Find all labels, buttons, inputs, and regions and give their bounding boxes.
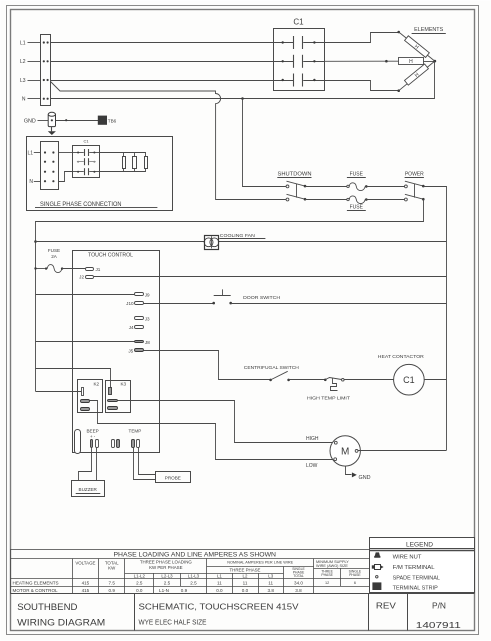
svg-text:11: 11 xyxy=(243,580,248,585)
svg-text:SHUTDOWN: SHUTDOWN xyxy=(278,172,312,178)
wire BEEP- to buzzer xyxy=(96,448,98,481)
resistor R1 (single phase) xyxy=(123,153,126,172)
svg-text:HEAT CONTACTOR: HEAT CONTACTOR xyxy=(378,354,425,359)
buzzer xyxy=(72,481,105,497)
switch SHUTDOWN tie bar xyxy=(296,184,298,198)
wire J2 to right bus xyxy=(94,276,446,278)
connector J3 xyxy=(135,317,150,322)
node L3 label xyxy=(20,78,40,84)
svg-text:PROBE: PROBE xyxy=(165,476,181,481)
svg-text:J9: J9 xyxy=(145,293,150,298)
wire K2 contact to motor LOW xyxy=(90,401,334,460)
wire J10 to door switch xyxy=(143,303,213,305)
legend wire nut symbol xyxy=(374,552,380,557)
wire L3 to contactor xyxy=(51,80,274,82)
connector J4 xyxy=(129,325,144,330)
wire K3 contact to motor HIGH xyxy=(118,401,335,443)
TEMP pin a xyxy=(132,440,135,448)
svg-text:L2: L2 xyxy=(243,573,248,578)
wire nut (GND) xyxy=(48,112,56,135)
svg-text:TB6: TB6 xyxy=(108,118,117,123)
COOLING FAN label xyxy=(219,233,265,238)
svg-text:HIGH: HIGH xyxy=(306,436,319,442)
BEEP label xyxy=(86,429,98,439)
svg-text:C1: C1 xyxy=(83,139,89,144)
GND label xyxy=(24,118,48,124)
svg-text:WIRE NUT: WIRE NUT xyxy=(393,554,422,560)
node element mid xyxy=(385,60,388,63)
svg-text:BEEP: BEEP xyxy=(86,429,98,434)
wire TEMP a to probe xyxy=(134,448,156,480)
contactor C1 (single phase) xyxy=(73,139,100,178)
ELEMENTS label xyxy=(412,27,446,34)
svg-text:415: 415 xyxy=(82,588,90,593)
svg-text:N: N xyxy=(22,97,26,103)
contact C1 pole2 xyxy=(274,55,325,68)
svg-text:0.9: 0.9 xyxy=(109,588,116,593)
svg-text:FUSE: FUSE xyxy=(350,204,364,210)
svg-text:F/M TERMINAL: F/M TERMINAL xyxy=(393,565,436,571)
connector J10 xyxy=(126,301,143,306)
svg-text:GND: GND xyxy=(24,118,36,124)
switch POWER pole2 xyxy=(405,194,425,201)
svg-text:WIRE (AWG) SIZE: WIRE (AWG) SIZE xyxy=(316,564,348,568)
wire motor to right bus xyxy=(358,450,446,452)
svg-text:12: 12 xyxy=(325,581,329,585)
fuse (top) xyxy=(347,183,406,191)
svg-text:BUZZER: BUZZER xyxy=(79,487,98,492)
contact C1 pole1 xyxy=(274,36,325,49)
svg-text:THREE PHASE LOADING: THREE PHASE LOADING xyxy=(140,560,193,565)
switch POWER label xyxy=(405,172,425,178)
svg-text:POWER: POWER xyxy=(405,172,424,178)
node L2 label xyxy=(20,59,40,65)
wire L2 to middle element xyxy=(325,60,399,62)
heating element H (bottom) xyxy=(399,61,435,91)
wire L2 to contactor xyxy=(51,61,274,63)
svg-text:J2: J2 xyxy=(79,275,84,280)
heating element H (middle) xyxy=(399,58,435,66)
svg-text:+ -: + - xyxy=(90,434,96,439)
svg-text:K2: K2 xyxy=(93,381,99,386)
svg-text:2A: 2A xyxy=(51,254,58,259)
single phase connection box xyxy=(27,137,173,211)
svg-text:WYE ELEC HALF SIZE: WYE ELEC HALF SIZE xyxy=(139,618,207,627)
svg-text:0.9: 0.9 xyxy=(181,588,188,593)
terminal strip TB6 xyxy=(98,116,117,125)
svg-text:L1: L1 xyxy=(20,40,26,46)
svg-text:6: 6 xyxy=(354,581,356,585)
wire top rail to resistors xyxy=(100,153,146,157)
switch SHUTDOWN label xyxy=(277,172,312,178)
svg-text:HIGH TEMP LIMIT: HIGH TEMP LIMIT xyxy=(307,395,350,400)
node L1 label xyxy=(20,40,40,46)
svg-text:NOMINAL AMPERES PER LINE WIRE: NOMINAL AMPERES PER LINE WIRE xyxy=(227,560,293,564)
svg-text:34.0: 34.0 xyxy=(294,580,303,585)
svg-text:J8: J8 xyxy=(145,340,150,345)
switch CENTRIFUGAL xyxy=(244,365,325,381)
wire GND to TB6 xyxy=(56,120,99,122)
svg-text:KW PER PHASE: KW PER PHASE xyxy=(149,565,182,570)
middle pin a xyxy=(112,440,115,448)
svg-text:GND: GND xyxy=(359,475,371,481)
connector slot (left) xyxy=(75,430,81,454)
wire L1 row to small contactor xyxy=(58,152,73,154)
svg-text:HEATING ELEMENTS: HEATING ELEMENTS xyxy=(13,580,59,585)
svg-text:DOOR SWITCH: DOOR SWITCH xyxy=(243,295,280,300)
connector J9 xyxy=(135,293,150,298)
legend box xyxy=(369,538,474,593)
wire POWER pole1 to right bus xyxy=(424,187,447,451)
svg-text:P/N: P/N xyxy=(432,601,446,611)
node wye apex xyxy=(433,60,436,63)
svg-text:SPADE TERMINAL: SPADE TERMINAL xyxy=(393,575,441,581)
svg-text:0.0: 0.0 xyxy=(216,588,223,593)
fuse FUSE 2A label xyxy=(48,248,60,259)
wire fan line xyxy=(36,241,447,243)
switch POWER pole1 xyxy=(405,181,425,188)
svg-text:K3: K3 xyxy=(120,381,126,386)
svg-text:C1: C1 xyxy=(293,18,304,27)
svg-text:3.8: 3.8 xyxy=(295,588,302,593)
relay K3 xyxy=(106,381,131,413)
svg-text:COOLING FAN: COOLING FAN xyxy=(220,233,255,238)
svg-text:LOW: LOW xyxy=(306,463,318,469)
contactor C1 (main) xyxy=(274,18,325,91)
svg-text:M: M xyxy=(341,447,349,458)
svg-text:2.5: 2.5 xyxy=(164,580,171,585)
wire J9 to left bus xyxy=(36,294,135,296)
svg-text:7.5: 7.5 xyxy=(109,580,116,585)
resistor R2 (single phase) xyxy=(133,153,137,172)
svg-text:J4: J4 xyxy=(129,325,134,330)
BEEP pin + xyxy=(91,440,93,448)
svg-text:N: N xyxy=(29,179,33,185)
connector J2 xyxy=(79,275,93,280)
wire bus to K2 coil xyxy=(36,391,82,393)
wire apex to N xyxy=(434,61,436,99)
terminal block (single phase) xyxy=(41,142,59,190)
touch control box xyxy=(73,251,160,453)
ground (motor) xyxy=(346,467,371,482)
svg-text:REV: REV xyxy=(376,601,396,611)
svg-text:SINGLE PHASE CONNECTION: SINGLE PHASE CONNECTION xyxy=(40,201,122,208)
connector J5 xyxy=(128,349,143,354)
resistor R3 (single phase) xyxy=(145,157,148,169)
relay K2 xyxy=(78,380,103,413)
svg-text:0.0: 0.0 xyxy=(242,588,249,593)
svg-text:TEMP: TEMP xyxy=(129,429,142,434)
door switch xyxy=(212,289,280,304)
svg-text:J3: J3 xyxy=(145,317,150,322)
node N label xyxy=(22,97,40,103)
legend terminal strip symbol xyxy=(372,582,381,590)
cooling fan icon xyxy=(204,236,219,250)
svg-text:PHASE: PHASE xyxy=(321,573,333,577)
svg-text:PHASE LOADING AND LINE AMPERES: PHASE LOADING AND LINE AMPERES AS SHOWN xyxy=(114,552,277,559)
svg-text:ELEMENTS: ELEMENTS xyxy=(414,27,444,33)
svg-text:TOUCH CONTROL: TOUCH CONTROL xyxy=(88,252,133,258)
svg-text:J10: J10 xyxy=(126,301,134,306)
svg-text:L3: L3 xyxy=(20,78,26,84)
wire J8 to left bus xyxy=(36,341,135,343)
svg-text:MOTOR & CONTROL: MOTOR & CONTROL xyxy=(13,588,59,593)
svg-text:FUSE: FUSE xyxy=(350,172,364,178)
svg-text:3.8: 3.8 xyxy=(268,588,275,593)
contact row2 (unused) xyxy=(77,161,84,163)
svg-text:SCHEMATIC, TOUCHSCREEN 415V: SCHEMATIC, TOUCHSCREEN 415V xyxy=(139,602,299,612)
legend spade terminal symbol xyxy=(376,576,378,578)
motor M xyxy=(330,436,360,466)
svg-text:FUSE: FUSE xyxy=(48,248,60,253)
svg-text:415: 415 xyxy=(82,580,90,585)
fuse (bottom) xyxy=(347,196,406,204)
wire L3 to bottom element xyxy=(325,81,399,91)
middle pin b xyxy=(117,440,120,448)
high temp limit xyxy=(307,378,394,401)
terminal block TB1 xyxy=(41,35,51,106)
fuse 2A xyxy=(34,265,85,273)
fuse FUSE (top) label xyxy=(347,172,366,178)
contact C1 pole3 xyxy=(274,74,325,87)
table data xyxy=(13,580,356,592)
svg-text:2.5: 2.5 xyxy=(136,580,143,585)
wire L1 to top element xyxy=(325,33,399,43)
svg-text:J1: J1 xyxy=(96,267,101,272)
switch SHUTDOWN pole1 xyxy=(286,181,347,188)
node element top xyxy=(397,31,400,34)
node N junction xyxy=(241,97,244,100)
TEMP pin b xyxy=(137,440,140,448)
node on GND wire xyxy=(65,119,67,121)
wire bus to K3 coil xyxy=(36,369,111,388)
node N label (single phase) xyxy=(29,179,40,185)
connector J8 xyxy=(135,340,151,345)
wire POWER pole2 to left bus xyxy=(36,200,424,392)
svg-text:L2: L2 xyxy=(20,59,26,65)
svg-text:L1-N: L1-N xyxy=(159,588,169,593)
svg-text:L2-L3: L2-L3 xyxy=(161,573,173,578)
svg-text:2.5: 2.5 xyxy=(190,580,197,585)
heating element H (top) xyxy=(399,32,435,61)
svg-text:L3: L3 xyxy=(268,573,273,578)
node L1 label (single phase) xyxy=(27,151,40,157)
svg-text:TOTAL: TOTAL xyxy=(293,574,304,578)
svg-text:CENTRIFUGAL SWITCH: CENTRIFUGAL SWITCH xyxy=(244,365,299,370)
svg-text:C1: C1 xyxy=(403,375,415,385)
wire J5 to centrifugal switch xyxy=(144,351,271,380)
wire L1 to contactor xyxy=(51,42,274,44)
fuse FUSE (bottom) label xyxy=(347,204,366,210)
svg-text:0.0: 0.0 xyxy=(136,588,143,593)
svg-text:L1: L1 xyxy=(27,151,33,157)
switch SHUTDOWN pole2 xyxy=(286,194,347,201)
svg-text:1407911: 1407911 xyxy=(416,620,461,630)
probe xyxy=(156,472,191,483)
svg-text:VOLTAGE: VOLTAGE xyxy=(75,561,95,566)
connector J1 xyxy=(86,267,101,272)
svg-text:LEGEND: LEGEND xyxy=(406,542,433,549)
wire door switch to right bus xyxy=(231,303,447,305)
contact row3 xyxy=(73,171,84,173)
svg-text:L1-L3: L1-L3 xyxy=(188,573,200,578)
contactor coil C1 (HEAT CONTACTOR) xyxy=(378,354,447,395)
svg-text:L1: L1 xyxy=(217,573,222,578)
wire N row jog to small contactor xyxy=(59,172,73,182)
node element bottom xyxy=(397,89,400,92)
svg-text:TERMINAL STRIP: TERMINAL STRIP xyxy=(393,586,438,592)
switch POWER tie bar xyxy=(414,184,416,198)
wire N to wye apex xyxy=(51,98,435,100)
wire BEEP+ to buzzer xyxy=(79,448,92,481)
svg-text:PHASE: PHASE xyxy=(349,573,361,577)
legend F/M terminal symbol xyxy=(372,565,384,570)
table frame xyxy=(11,550,370,594)
svg-text:KW: KW xyxy=(108,566,116,571)
wire N tap to shutdown xyxy=(243,99,288,187)
wire bottom rail xyxy=(100,169,146,172)
svg-text:THREE PHASE: THREE PHASE xyxy=(230,568,261,573)
node bus-fan junction xyxy=(34,240,37,243)
svg-text:WIRING DIAGRAM: WIRING DIAGRAM xyxy=(17,618,105,629)
svg-text:SOUTHBEND: SOUTHBEND xyxy=(17,602,77,613)
svg-text:11: 11 xyxy=(268,580,273,585)
svg-text:H: H xyxy=(409,59,413,65)
svg-text:L1-L2: L1-L2 xyxy=(134,573,146,578)
wire TEMP b to probe xyxy=(139,448,156,475)
wire L3 tap to shutdown (with hop over N) xyxy=(51,82,288,200)
svg-text:11: 11 xyxy=(217,580,222,585)
BEEP pin - xyxy=(96,440,99,448)
svg-text:J5: J5 xyxy=(128,349,133,354)
contact row1 xyxy=(73,152,84,154)
